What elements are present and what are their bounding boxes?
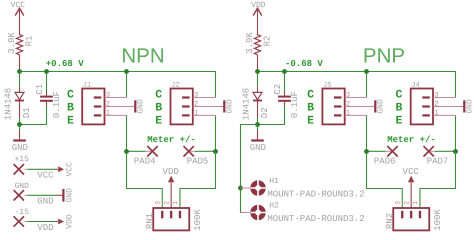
wire GND [28,194,57,196]
junction at J5 pin 3 [364,69,369,74]
connector J5 body [322,89,344,125]
svg-text:PAD6: PAD6 [374,157,396,167]
wire D1 to C1 bottom [20,106,47,125]
wire J4 pin1 down [455,115,457,151]
svg-text:E: E [155,115,162,128]
svg-text:MOUNT-PAD-ROUND3.2: MOUNT-PAD-ROUND3.2 [267,214,364,224]
svg-text:1: 1 [172,201,179,205]
pad +15 [14,164,28,174]
svg-text:NPN: NPN [121,45,164,68]
ground symbol GND bar [57,189,64,202]
junction meter left PNP [364,149,369,154]
junction at C1 top [44,69,49,74]
svg-text:VCC: VCC [11,1,26,10]
svg-text:PAD7: PAD7 [427,157,449,167]
connector J2 body [171,89,193,125]
ground symbol at pin 2 of J4 [463,100,465,112]
svg-text:VCC: VCC [37,171,54,181]
svg-text:GND: GND [250,143,266,153]
junction at C2 top [282,69,287,74]
capacitor C2 0.1uF [278,72,291,106]
pin 1 of J1 [105,114,127,116]
svg-text:0.1uF: 0.1uF [290,91,300,118]
svg-text:3.9K: 3.9K [7,32,17,54]
wire meter left [127,150,147,152]
svg-text:1N4148: 1N4148 [242,88,252,120]
svg-text:R1: R1 [24,36,34,47]
svg-text:PAD4: PAD4 [134,157,156,167]
svg-text:MOUNT-PAD-ROUND3.2: MOUNT-PAD-ROUND3.2 [267,189,364,199]
pin 3 of J4 [433,97,456,99]
svg-text:100K: 100K [433,209,443,231]
pin 3 of J2 [193,97,216,99]
svg-text:2: 2 [434,101,438,109]
svg-text:+0.68 V: +0.68 V [46,59,84,69]
svg-text:C1: C1 [35,84,45,95]
svg-text:GND: GND [466,99,474,114]
svg-text:3: 3 [395,201,402,205]
wire J5 pin1 down [366,115,368,151]
svg-text:VCC: VCC [66,162,75,177]
pin 2 of J1 [105,106,135,108]
pad PAD7 [424,146,437,156]
wire ground rail to mount pads [241,125,258,213]
svg-text:100K: 100K [193,209,203,231]
pin 3 of J1 [105,97,127,99]
junction at D1 bottom [17,122,22,127]
svg-text:3.9K: 3.9K [245,32,255,54]
svg-text:VCC: VCC [403,167,420,177]
wire D2 to C2 bottom [258,106,285,125]
svg-text:RN1: RN1 [145,213,155,229]
wire +15 [28,168,57,170]
svg-text:1: 1 [412,201,419,205]
svg-text:C: C [67,88,74,101]
pin 2 of J2 [193,106,224,108]
svg-text:3: 3 [155,201,162,205]
capacitor C1 0.1uF [40,72,53,106]
svg-text:VDD: VDD [66,214,75,229]
svg-text:1: 1 [106,109,110,117]
svg-text:1: 1 [194,109,198,117]
ground PNP [251,125,264,141]
ground symbol at pin 2 of J2 [223,100,225,112]
pin 1 of J5 [345,114,367,116]
svg-text:Meter +/-: Meter +/- [387,135,436,145]
ground NPN [13,125,26,141]
supply symbol VCC at RN2 [403,167,420,208]
junction meter right NPN [213,149,218,154]
junction at R2 bottom [255,69,260,74]
svg-text:GND: GND [37,197,53,207]
wire J1 pin1 down [126,115,128,151]
resistor network RN2 100K [393,208,429,230]
svg-text:0.1uF: 0.1uF [52,91,62,118]
svg-text:GND: GND [226,99,235,114]
ground symbol at pin 2 of J5 [374,100,376,112]
wire J2 pin1 down [215,115,217,151]
supply symbol VCC NPN [15,8,24,35]
ground symbol at pin 2 of J1 [134,100,136,112]
svg-text:2: 2 [163,201,170,205]
svg-text:H1: H1 [269,177,279,186]
pad PAD5 [184,146,197,156]
junction at R1 bottom [17,69,22,74]
connector J1 body [82,89,104,125]
wire top PNP rail [258,72,456,98]
svg-text:PAD5: PAD5 [187,157,209,167]
svg-text:C: C [307,88,314,101]
svg-text:R2: R2 [262,36,272,47]
supply symbol VDD arrow [57,219,65,225]
svg-text:D2: D2 [260,107,270,118]
svg-text:3: 3 [346,92,350,100]
svg-text:3: 3 [194,92,198,100]
junction at D2 bottom [255,122,260,127]
svg-text:H2: H2 [269,202,279,211]
svg-text:2: 2 [346,101,350,109]
svg-text:E: E [395,115,402,128]
junction at H1 [238,186,243,191]
junction meter left NPN [124,149,129,154]
wire top NPN rail [20,72,216,98]
svg-text:B: B [307,102,314,115]
svg-text:E: E [67,115,74,128]
diode D1 1N4148 [15,72,24,125]
wire meter right [435,150,455,152]
wire J1 pin3 up [126,72,128,98]
svg-text:GND: GND [12,143,28,153]
pin 1 of J4 [433,114,456,116]
pad PAD6 [385,146,398,156]
svg-text:2: 2 [194,101,198,109]
junction at J1 pin 3 [124,69,129,74]
svg-text:E: E [307,115,314,128]
svg-text:2: 2 [106,101,110,109]
svg-text:B: B [395,102,402,115]
wire RN1 left rail [127,152,163,209]
pin 3 of J5 [345,97,367,99]
svg-text:RN2: RN2 [385,213,395,229]
junction meter right PNP [453,149,458,154]
svg-text:-0.68 V: -0.68 V [285,59,323,69]
pad PAD4 [145,146,158,156]
pad -15 [14,216,28,226]
svg-text:B: B [155,102,162,115]
svg-text:PNP: PNP [363,45,405,68]
pin 2 of J5 [345,106,375,108]
resistor R1 3.9K [16,35,22,72]
wire RN2 right rail [420,152,456,209]
svg-text:+15: +15 [15,155,30,164]
svg-text:2: 2 [403,201,410,205]
supply symbol VCC arrow [57,166,65,172]
pin 1 of J2 [193,114,216,116]
wire RN1 right rail [180,152,216,209]
svg-text:1: 1 [346,109,350,117]
wire -15 [28,221,57,223]
supply symbol VDD at RN1 [163,167,179,208]
pin 2 of J4 [433,106,464,108]
svg-text:C: C [155,88,162,101]
svg-text:GND: GND [66,188,75,203]
resistor network RN1 100K [153,208,189,230]
wire J5 pin3 up [366,72,368,98]
supply symbol VDD PNP [253,8,262,35]
mount pad H1 [241,179,268,197]
connector J4 body [411,89,433,125]
svg-text:3: 3 [106,92,110,100]
svg-text:-15: -15 [15,208,30,217]
diode D2 1N4148 [253,72,262,125]
svg-text:B: B [67,102,74,115]
svg-text:1N4148: 1N4148 [4,88,14,120]
svg-text:GND: GND [137,99,146,114]
svg-text:GND: GND [15,182,30,191]
mount pad H2 [241,204,268,222]
svg-text:VDD: VDD [163,167,179,177]
wire meter right [195,150,215,152]
wire meter left [367,150,387,152]
pad GND [14,190,28,200]
svg-text:GND: GND [377,99,386,114]
svg-text:VDD: VDD [37,223,53,233]
svg-text:D1: D1 [22,107,32,118]
resistor R2 3.9K [254,35,260,72]
svg-text:3: 3 [434,92,438,100]
svg-text:1: 1 [434,109,438,117]
svg-text:C2: C2 [273,84,283,95]
svg-text:C: C [395,88,402,101]
svg-text:Meter +/-: Meter +/- [147,135,196,145]
wire RN2 left rail [367,152,403,209]
